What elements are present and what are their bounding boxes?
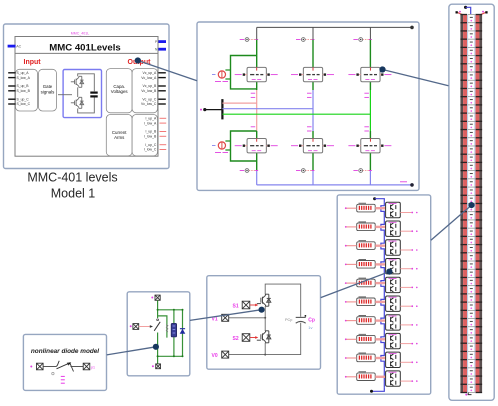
SM4 gate-module link xyxy=(375,263,385,265)
stack cell 37 xyxy=(470,312,473,314)
stack separator 33 xyxy=(460,285,467,286)
switch gate wire xyxy=(139,326,151,328)
SM6 module xyxy=(386,296,401,311)
stack separator 28 xyxy=(460,244,467,245)
stack cell 28 xyxy=(470,238,473,240)
chain top node xyxy=(373,197,376,200)
stack cell 23 xyxy=(470,197,473,199)
leg C: mid magenta labels xyxy=(364,93,369,131)
stack cell 1 xyxy=(470,16,473,18)
svg-text:S_up_A: S_up_A xyxy=(17,71,30,75)
stack separator 29 xyxy=(460,252,467,253)
SM1 gate-module link xyxy=(375,207,385,209)
SM2 module xyxy=(386,221,401,236)
SM8 output wire xyxy=(400,343,411,345)
stack cell 35 xyxy=(470,296,473,298)
stack separator 25 xyxy=(460,219,467,220)
switch model box xyxy=(127,292,190,376)
leg B: top bus drop xyxy=(312,27,314,39)
stack separator 7 xyxy=(460,71,467,72)
stack separator 32 xyxy=(460,277,467,278)
leg B: middle phase wire xyxy=(312,90,314,131)
svg-text:Voltages: Voltages xyxy=(111,89,129,94)
input port group box xyxy=(16,69,38,111)
input stub S_low_A xyxy=(8,77,15,79)
SM7 output wire xyxy=(400,324,411,326)
leg A: bottom wire to bus xyxy=(256,171,258,185)
SM9 gate-module link xyxy=(375,357,385,359)
Capa. Voltages box xyxy=(106,69,132,113)
svg-text:Arms: Arms xyxy=(114,135,125,140)
upper row current source symbol xyxy=(218,71,225,78)
stack cell 26 xyxy=(470,222,473,224)
stack cell 25 xyxy=(470,214,473,216)
stack separator 3 xyxy=(460,39,467,40)
tall arm stack box xyxy=(449,4,494,400)
leg B upper arm model block xyxy=(303,67,322,81)
stack cell 17 xyxy=(470,148,473,150)
SM4 gate input wire xyxy=(345,264,347,266)
svg-text:S1: S1 xyxy=(233,303,239,309)
stack cell 24 xyxy=(470,205,473,207)
leg C: top current sensor xyxy=(362,39,370,41)
spring mark xyxy=(166,325,168,332)
leg B: upper arm wire xyxy=(312,40,314,68)
current stub I_low_C xyxy=(160,149,167,151)
SM7 module xyxy=(386,315,401,330)
leg C: upper arm wire xyxy=(369,40,371,68)
stack separator 38 xyxy=(460,326,467,327)
stack separator 21 xyxy=(460,186,467,187)
bottom DC bus wire xyxy=(257,184,412,186)
connector: half-bridge switch to switch model xyxy=(190,310,262,321)
SM7 gate block xyxy=(357,317,376,325)
node V1 junction xyxy=(264,317,266,319)
S2 gate arrow xyxy=(250,337,256,339)
stack separator 15 xyxy=(460,137,467,138)
SM2 output wire xyxy=(400,230,411,232)
SM5 output wire xyxy=(400,286,411,288)
S1 gate arrow xyxy=(250,304,256,306)
stack cell 34 xyxy=(470,288,473,290)
stack top-left lead xyxy=(457,12,463,14)
leg C lower block side leads xyxy=(358,145,361,147)
stack separator 42 xyxy=(460,359,467,360)
svg-text:S2: S2 xyxy=(233,336,239,342)
Vc output port group box xyxy=(132,69,157,113)
stack cell 12 xyxy=(470,107,473,109)
stack separator 30 xyxy=(460,260,467,261)
bottom bus label mark xyxy=(400,181,407,183)
SM3 gate input wire xyxy=(345,245,347,247)
stack cell 9 xyxy=(470,82,473,84)
cell wiring xyxy=(229,284,301,355)
stack cell 7 xyxy=(470,66,473,68)
SM3 gate-module link xyxy=(375,244,385,246)
SM10 gate block xyxy=(357,373,376,381)
output stub Vc_low_A xyxy=(158,77,165,79)
stack cell 19 xyxy=(470,164,473,166)
svg-text:p1: p1 xyxy=(91,366,95,370)
S2 gate port xyxy=(242,334,250,342)
stack cell 32 xyxy=(470,271,473,273)
stack cell 15 xyxy=(470,131,473,133)
diode wire left xyxy=(43,366,56,368)
stack separator 31 xyxy=(460,269,467,270)
stack separator 24 xyxy=(460,211,467,212)
diode left port xyxy=(37,363,44,370)
chain top blue wire xyxy=(375,199,385,203)
leg A: upper arm wire xyxy=(256,40,258,68)
SM3 gate block xyxy=(357,242,376,250)
stack cell 44 xyxy=(470,370,473,372)
stack cell 36 xyxy=(470,304,473,306)
stack right red column xyxy=(476,15,480,393)
svg-text:V0: V0 xyxy=(212,353,218,359)
stack separator 36 xyxy=(460,310,467,311)
I output port group box xyxy=(132,115,157,156)
SM10 output wire xyxy=(400,380,411,382)
svg-text:Vc_low_C: Vc_low_C xyxy=(141,102,157,106)
leg B lower block side leads xyxy=(300,145,303,147)
leg A lower block side leads xyxy=(244,145,247,147)
SM2 gate block xyxy=(357,223,376,231)
SM5 gate input wire xyxy=(345,282,347,284)
V0 port xyxy=(222,351,229,358)
leg A upper block side leads xyxy=(244,74,247,76)
stack separator 19 xyxy=(460,170,467,171)
SM6 gate-module link xyxy=(375,301,385,303)
SM9 output wire xyxy=(400,361,411,363)
stack cell 20 xyxy=(470,173,473,175)
stack separator 17 xyxy=(460,154,467,155)
stack cell 16 xyxy=(470,140,473,142)
top bus right node xyxy=(410,26,414,30)
leg B: lower arm wire xyxy=(312,131,314,139)
top DC bus wire xyxy=(257,26,412,28)
phase C tap wire xyxy=(222,113,370,115)
stack separator 44 xyxy=(460,375,467,376)
half-bridge icon box xyxy=(63,70,101,118)
SM1 output wire xyxy=(400,212,411,214)
transistor S1 IGBT xyxy=(257,294,271,306)
stack separator 37 xyxy=(460,318,467,319)
SM4 module xyxy=(386,259,401,274)
leg C lower arm model block xyxy=(361,139,380,153)
diode left port dot xyxy=(30,366,32,368)
leg A: lower arm wire xyxy=(256,131,258,139)
SM9 gate block xyxy=(357,354,376,362)
svg-text:N: N xyxy=(155,48,158,52)
stack separator 39 xyxy=(460,334,467,335)
stack separator 41 xyxy=(460,351,467,352)
stack cell 27 xyxy=(470,230,473,232)
lower row current source symbol xyxy=(218,142,225,149)
stack separator 6 xyxy=(460,63,467,64)
stack cell 21 xyxy=(470,181,473,183)
leg C upper arm model block xyxy=(361,67,380,81)
svg-text:S_up_B: S_up_B xyxy=(17,84,30,88)
output stub Vc_up_B xyxy=(158,85,165,87)
stack separator 43 xyxy=(460,367,467,368)
svg-text:I_low_A: I_low_A xyxy=(144,121,157,125)
SM9 module xyxy=(386,352,401,367)
half-bridge cell box xyxy=(207,276,321,370)
stack separator 35 xyxy=(460,301,467,302)
connector: arm stack to submodule chain xyxy=(431,205,472,240)
svg-text:I_low_C: I_low_C xyxy=(144,148,157,152)
svg-text:Vc_up_A: Vc_up_A xyxy=(143,71,157,75)
output stub Vc_up_A xyxy=(158,72,165,74)
svg-text:I_up_B: I_up_B xyxy=(145,130,157,134)
svg-text:Cp: Cp xyxy=(308,318,315,324)
node V0 junction xyxy=(264,354,266,356)
stack cell 8 xyxy=(470,74,473,76)
V1 port xyxy=(222,314,229,321)
stack cell 41 xyxy=(470,345,473,347)
connector: switch model to diode model xyxy=(107,347,156,355)
output stub Vc_low_B xyxy=(158,90,165,92)
svg-text:S_low_B: S_low_B xyxy=(17,89,31,93)
stack separator 34 xyxy=(460,293,467,294)
diode wire right xyxy=(71,366,84,368)
phase A tap wire xyxy=(222,102,256,104)
chain blue spine xyxy=(381,202,384,387)
svg-text:AC: AC xyxy=(16,45,21,49)
chain bottom node xyxy=(370,390,373,393)
svg-text:signals: signals xyxy=(41,89,55,94)
MMC 401Levels block body xyxy=(15,37,158,157)
switch gate port xyxy=(133,324,139,330)
current stub I_up_A xyxy=(160,117,167,119)
bottom bus right node xyxy=(410,183,414,187)
current stub I_up_B xyxy=(160,131,167,133)
svg-text:PCp: PCp xyxy=(285,318,292,322)
stack cell 6 xyxy=(470,57,473,59)
stack cell 43 xyxy=(470,362,473,364)
SM1 gate block xyxy=(357,204,376,212)
stack cell 33 xyxy=(470,279,473,281)
stack cell 18 xyxy=(470,156,473,158)
stack separator 26 xyxy=(460,228,467,229)
stack cell 29 xyxy=(470,246,473,248)
SM9 gate input wire xyxy=(345,357,347,359)
stack cell 30 xyxy=(470,255,473,257)
SM10 module xyxy=(386,371,401,386)
SM7 gate-module link xyxy=(375,319,385,321)
ideal switch xyxy=(154,322,160,331)
diode D (navy) xyxy=(180,329,186,334)
input stub S_low_B xyxy=(8,90,15,92)
leg C: bottom wire to bus xyxy=(369,171,371,185)
leg B upper block side leads xyxy=(300,74,303,76)
current stub I_low_A xyxy=(160,122,167,124)
stack separator 4 xyxy=(460,47,467,48)
stack centre cell borders xyxy=(468,15,475,393)
leg A: top bus drop xyxy=(256,27,258,39)
stack separator 20 xyxy=(460,178,467,179)
leg C: bottom current sensor xyxy=(362,170,370,172)
leg B: mid magenta labels xyxy=(307,93,312,131)
svg-text:MMC 401Levels: MMC 401Levels xyxy=(49,42,120,53)
leg B: bottom current sensor xyxy=(305,170,313,172)
stack cell 10 xyxy=(470,90,473,92)
SM5 module xyxy=(386,277,401,292)
svg-text:S_up_C: S_up_C xyxy=(17,97,30,101)
submodule chain box xyxy=(337,195,431,394)
stack cell 31 xyxy=(470,263,473,265)
connector: submodule to half-bridge cell xyxy=(321,272,390,298)
three-phase converter detail box xyxy=(197,22,419,190)
stack separator 23 xyxy=(460,203,467,204)
leg C: top bus drop xyxy=(369,27,371,39)
SM5 gate-module link xyxy=(375,282,385,284)
current stub I_up_C xyxy=(160,144,167,146)
SM6 output wire xyxy=(400,305,411,307)
SM10 gate input wire xyxy=(345,376,347,378)
stack bottom ground xyxy=(468,393,471,395)
leg B lower arm model block xyxy=(303,139,322,153)
leg B: top current sensor xyxy=(305,39,313,41)
svg-text:I_up_C: I_up_C xyxy=(145,143,157,147)
SM2 gate-module link xyxy=(375,226,385,228)
icon upper IGBT xyxy=(71,76,84,87)
SM1 gate input wire xyxy=(345,207,347,209)
title separator xyxy=(15,52,158,54)
SM4 gate block xyxy=(357,261,376,269)
leg C upper block side leads xyxy=(358,74,361,76)
chain bottom blue wire xyxy=(372,388,385,392)
svg-text:Input: Input xyxy=(24,59,42,66)
AC input stub xyxy=(8,45,16,48)
svg-text:Vc_low_B: Vc_low_B xyxy=(141,89,157,93)
small o marker xyxy=(52,372,54,374)
SM3 output wire xyxy=(400,249,411,251)
nonlinear diode symbol xyxy=(56,361,74,372)
input stub S_up_A xyxy=(8,72,15,74)
stack cell 3 xyxy=(470,33,473,35)
stack top blue wire xyxy=(466,7,471,14)
SM3 module xyxy=(386,240,401,255)
stack cell 46 xyxy=(470,386,473,388)
svg-text:I_up_A: I_up_A xyxy=(145,117,157,121)
leg C: lower arm wire xyxy=(369,131,371,139)
SM1 module xyxy=(386,202,401,217)
stack cell 13 xyxy=(470,115,473,117)
SM2 gate input wire xyxy=(345,226,347,228)
upper row source bracket (leg A) xyxy=(231,56,257,89)
input stub S_up_B xyxy=(8,85,15,87)
svg-text:Vc_up_B: Vc_up_B xyxy=(143,84,157,88)
svg-text:I_low_B: I_low_B xyxy=(144,135,157,139)
SM7 gate input wire xyxy=(345,320,347,322)
stack separator 0 xyxy=(460,14,467,15)
stack cell 42 xyxy=(470,353,473,355)
input stub S_up_C xyxy=(8,98,15,100)
stack left red column xyxy=(463,15,467,393)
Gate signals box xyxy=(39,69,57,111)
output stub Vc_up_C xyxy=(158,98,165,100)
leg C: middle phase wire xyxy=(369,90,371,131)
svg-text:MMC_401L: MMC_401L xyxy=(71,32,90,36)
stack left dark rail xyxy=(460,15,463,393)
nonlinear diode model box xyxy=(23,334,106,390)
stack separator 13 xyxy=(460,121,467,122)
SM8 gate block xyxy=(357,335,376,343)
leg A: top current sensor xyxy=(249,39,257,41)
SM6 gate block xyxy=(357,298,376,306)
SM8 module xyxy=(386,333,401,348)
current stub I_low_B xyxy=(160,135,167,137)
stack cell 45 xyxy=(470,378,473,380)
magenta value marks xyxy=(61,376,65,383)
switch box bottom port xyxy=(156,364,161,369)
input stub S_low_C xyxy=(8,103,15,105)
SM8 gate-module link xyxy=(375,338,385,340)
stack cell 39 xyxy=(470,329,473,331)
stack cell 40 xyxy=(470,337,473,339)
half-bridge wiring xyxy=(58,74,94,113)
capacitor Cp xyxy=(296,317,306,323)
connector: leg C block to arm stack xyxy=(383,70,449,86)
svg-text:S_low_A: S_low_A xyxy=(17,76,31,80)
lower row source bracket (leg A) xyxy=(231,131,257,161)
stack top node xyxy=(464,6,467,9)
SM6 gate input wire xyxy=(345,301,347,303)
stack separator 22 xyxy=(460,195,467,196)
leg A upper arm model block xyxy=(247,67,266,81)
SM10 gate-module link xyxy=(375,376,385,378)
switch box top port xyxy=(155,295,160,300)
phase B tap wire xyxy=(222,108,313,110)
N output stub xyxy=(158,48,166,51)
svg-text:S_low_C: S_low_C xyxy=(17,102,31,106)
stack separator 40 xyxy=(460,343,467,344)
svg-text:nonlinear diode model: nonlinear diode model xyxy=(31,348,99,355)
SM4 output wire xyxy=(400,268,411,270)
stack separator 2 xyxy=(460,30,467,31)
leg A lower arm model block xyxy=(247,139,266,153)
stack cell 38 xyxy=(470,320,473,322)
svg-text:MMC-401 levels: MMC-401 levels xyxy=(27,171,117,185)
outer frame box of MMC overview xyxy=(4,24,170,169)
stack cell 22 xyxy=(470,189,473,191)
resistor R (navy) xyxy=(171,323,176,337)
stack separator 12 xyxy=(460,112,467,113)
leg A: bottom current sensor xyxy=(249,170,257,172)
stack cell 11 xyxy=(470,99,473,101)
stack separator 14 xyxy=(460,129,467,130)
stack separator 18 xyxy=(460,162,467,163)
svg-text:Vc_low_A: Vc_low_A xyxy=(141,76,157,80)
S1 gate port xyxy=(242,301,250,309)
stack cell 2 xyxy=(470,25,473,27)
stack cell 4 xyxy=(470,41,473,43)
stack right dark rail xyxy=(479,15,482,393)
SM5 gate block xyxy=(357,279,376,287)
stack separator 45 xyxy=(460,384,467,385)
icon capacitor xyxy=(90,93,97,97)
P output stub xyxy=(158,40,166,43)
connector: MMC output to converter box xyxy=(138,61,197,81)
phase source: black bus xyxy=(205,109,223,111)
SM8 gate input wire xyxy=(345,338,347,340)
diode right port xyxy=(83,363,90,370)
output stub Vc_low_C xyxy=(158,103,165,105)
stack separator 16 xyxy=(460,145,467,146)
svg-text:Model 1: Model 1 xyxy=(51,187,96,201)
svg-text:1v: 1v xyxy=(308,325,312,330)
